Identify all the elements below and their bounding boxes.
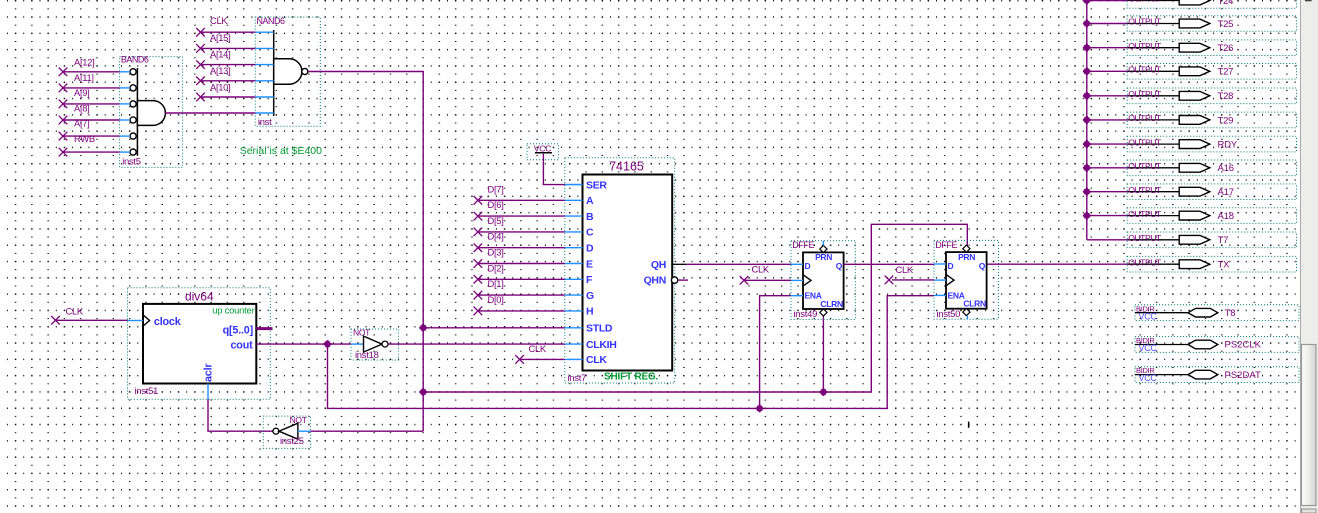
input wire CLK (NAND6) (196, 15, 255, 36)
svg-text:Serial is at $E400: Serial is at $E400 (240, 145, 322, 157)
input wire A[11] (59, 72, 130, 92)
input wire D[3] (474, 247, 565, 268)
svg-text:VCC: VCC (534, 143, 551, 153)
wire STLD net (423, 327, 565, 329)
svg-text:D[0]: D[0] (488, 294, 504, 305)
and gate BAND6 inst5 (120, 54, 183, 167)
svg-text:inst: inst (258, 117, 272, 128)
input wire CLK (inst50) (885, 264, 934, 284)
input wire D[5] (474, 215, 565, 236)
svg-text:SHIFT REG.: SHIFT REG. (604, 372, 659, 383)
svg-text:inst25: inst25 (280, 436, 304, 447)
nand gate NAND6 inst (255, 16, 320, 128)
svg-text:OUTPUT: OUTPUT (1128, 185, 1162, 195)
svg-text:E: E (586, 258, 593, 270)
junction on ENA net (756, 405, 764, 413)
svg-text:PRN: PRN (815, 252, 832, 262)
svg-text:A[8]: A[8] (74, 102, 89, 113)
junction at T28 (1083, 92, 1091, 100)
svg-text:CLK: CLK (752, 264, 770, 275)
svg-text:OUTPUT: OUTPUT (1128, 65, 1162, 75)
svg-text:up counter: up counter (212, 304, 254, 315)
wire PRN net (423, 224, 967, 392)
svg-text:OUTPUT: OUTPUT (1128, 161, 1162, 171)
svg-text:A[13]: A[13] (210, 65, 230, 76)
bidir pin T8 (1135, 304, 1299, 321)
svg-text:A[11]: A[11] (74, 72, 94, 83)
svg-text:OUTPUT: OUTPUT (1128, 233, 1162, 243)
svg-text:A17: A17 (1218, 187, 1234, 198)
svg-text:inst50: inst50 (937, 309, 961, 320)
junction at A17 (1083, 188, 1091, 196)
scrollbar (1301, 0, 1318, 513)
bus vertical to output pins (1086, 0, 1088, 240)
svg-text:DFFE: DFFE (935, 240, 957, 250)
output pin A18 (1127, 208, 1296, 224)
svg-text:74165: 74165 (609, 160, 644, 174)
wire CLRN branch from inst49 (822, 315, 824, 392)
wire bus to T28 (1087, 95, 1127, 97)
stray cursor mark (968, 422, 970, 428)
output pin RDY (1127, 136, 1296, 152)
svg-text:A[10]: A[10] (210, 82, 230, 93)
input wire A[10] (NAND6) (196, 82, 255, 102)
wire bus to T26 (1087, 47, 1127, 49)
output pin T26 (1127, 40, 1296, 56)
svg-text:RDY: RDY (1218, 140, 1238, 151)
svg-text:T7: T7 (1218, 235, 1229, 246)
svg-text:aclr: aclr (203, 363, 215, 382)
svg-text:inst51: inst51 (135, 386, 159, 397)
blue stub above PRN (inst49) (822, 241, 824, 246)
wire BAND6 output to NAND6 input (165, 112, 255, 114)
svg-text:D[1]: D[1] (488, 278, 504, 289)
wire inst25 input from NAND6 net (311, 430, 424, 432)
svg-text:Q: Q (836, 261, 843, 271)
svg-text:T29: T29 (1218, 115, 1234, 126)
input wire A[13] (NAND6) (196, 65, 255, 85)
input wire CLK (74165) (515, 343, 565, 364)
junction at RDY (1083, 140, 1091, 148)
svg-text:inst18: inst18 (355, 350, 379, 361)
svg-text:D: D (805, 261, 811, 271)
svg-text:CLK: CLK (529, 343, 547, 354)
svg-text:PRN: PRN (958, 252, 975, 262)
flip-flop DFFE inst50 (934, 240, 998, 320)
svg-text:STLD: STLD (586, 323, 613, 335)
svg-text:OUTPUT: OUTPUT (1128, 113, 1162, 123)
svg-text:SER: SER (586, 179, 607, 191)
svg-text:T25: T25 (1218, 19, 1234, 30)
wire bus to A18 (1087, 215, 1127, 217)
svg-text:clock: clock (154, 316, 182, 328)
junction at T25 (1083, 20, 1091, 28)
junction at T26 (1083, 44, 1091, 52)
output pin T29 (1127, 112, 1296, 128)
input wire D[0] (474, 294, 565, 315)
svg-text:CLK: CLK (210, 15, 228, 26)
svg-text:A: A (586, 195, 594, 207)
bidir pin PS2CLK (1135, 336, 1299, 353)
svg-text:ENA: ENA (805, 291, 822, 301)
svg-text:TX: TX (1218, 260, 1231, 271)
svg-text:OUTPUT: OUTPUT (1128, 89, 1162, 99)
svg-text:A[15]: A[15] (210, 32, 230, 43)
input wire D[6] (474, 199, 565, 220)
svg-text:cout: cout (231, 340, 254, 352)
svg-text:CLK: CLK (586, 354, 607, 366)
svg-text:VCC: VCC (1139, 343, 1158, 353)
svg-text:OUTPUT: OUTPUT (1128, 41, 1162, 51)
counter div64 inst51 (128, 288, 273, 400)
svg-text:A[7]: A[7] (74, 118, 89, 129)
output pin T27 (1127, 64, 1296, 80)
input wire A[15] (NAND6) (196, 32, 255, 53)
input wire A[7] (59, 118, 130, 141)
svg-text:div64: div64 (185, 290, 214, 304)
input wire RWB (59, 133, 130, 157)
svg-text:OUTPUT: OUTPUT (1128, 0, 1162, 4)
svg-text:T24: T24 (1218, 0, 1234, 7)
output pin T28 (1127, 88, 1296, 104)
output pin T24 (1127, 0, 1296, 8)
svg-text:D[6]: D[6] (488, 199, 504, 210)
wire bus to A17 (1087, 191, 1127, 193)
input wire A[12] (59, 57, 130, 76)
junction at T24 (1083, 0, 1091, 4)
wire inst18 output to CLKIH (388, 343, 565, 345)
svg-text:A18: A18 (1218, 211, 1234, 222)
svg-text:D[5]: D[5] (488, 215, 504, 226)
svg-text:D: D (586, 243, 594, 255)
svg-text:q[5..0]: q[5..0] (223, 325, 253, 337)
svg-text:Q: Q (979, 261, 986, 271)
wire bus to RDY (1087, 143, 1127, 145)
shift register 74165 inst7 (565, 158, 688, 384)
input wire D[7] (474, 183, 565, 204)
wire bus to A16 (1087, 167, 1127, 169)
junction on STLD net (419, 324, 427, 332)
output pin A17 (1127, 184, 1296, 200)
output pin A16 (1127, 160, 1296, 176)
svg-text:D[4]: D[4] (488, 231, 504, 242)
svg-text:T28: T28 (1218, 91, 1234, 102)
svg-text:QHN: QHN (644, 275, 666, 287)
svg-text:A[14]: A[14] (210, 48, 230, 59)
output pin TX (1127, 256, 1296, 272)
svg-text:A16: A16 (1218, 163, 1234, 174)
not gate inst25 (263, 415, 310, 448)
junction on CLRN net (419, 388, 427, 396)
svg-text:A[9]: A[9] (74, 87, 89, 98)
junction at T29 (1083, 116, 1091, 124)
svg-text:OUTPUT: OUTPUT (1128, 17, 1162, 27)
svg-text:T27: T27 (1218, 67, 1234, 78)
svg-text:G: G (586, 290, 594, 302)
wire ENA branch to inst49 (760, 296, 791, 409)
svg-text:C: C (586, 227, 594, 239)
wire bus corner to T7 (1087, 239, 1127, 241)
wire aclr net (208, 399, 273, 431)
svg-text:QH: QH (651, 259, 666, 271)
svg-text:NOT: NOT (353, 328, 370, 338)
svg-text:CLKIH: CLKIH (586, 339, 617, 351)
svg-text:DFFE: DFFE (792, 240, 814, 250)
svg-text:BAND6: BAND6 (121, 54, 149, 64)
svg-text:PS2CLK: PS2CLK (1225, 340, 1262, 351)
wire cout to inst18 (256, 343, 351, 345)
wire bus to T24 (1087, 0, 1127, 2)
svg-text:D[2]: D[2] (488, 262, 504, 273)
junction at A16 (1083, 164, 1091, 172)
svg-text:F: F (586, 274, 593, 286)
input wire A[8] (59, 102, 130, 124)
bidir pin PS2DAT (1135, 366, 1299, 383)
svg-text:OUTPUT: OUTPUT (1128, 209, 1162, 219)
svg-text:VCC: VCC (1139, 373, 1158, 383)
svg-text:CLK: CLK (66, 305, 84, 316)
junction on PRN net (820, 388, 828, 396)
power VCC (527, 143, 559, 160)
svg-text:inst49: inst49 (794, 309, 818, 320)
not gate inst18 (351, 328, 398, 361)
svg-text:CLRN: CLRN (963, 299, 986, 309)
output pin T25 (1127, 16, 1296, 32)
wire Q (inst50) to TX (987, 263, 1127, 265)
svg-text:NAND6: NAND6 (257, 16, 286, 26)
wire Q to D (inst49 to inst50) (843, 263, 934, 265)
svg-text:D[3]: D[3] (488, 247, 504, 258)
svg-text:CLK: CLK (896, 264, 914, 275)
blue stub below CLRN (inst50) (966, 316, 968, 319)
wire bus to T29 (1087, 119, 1127, 121)
junction at T27 (1083, 67, 1091, 75)
output pin T7 (1127, 232, 1296, 248)
input wire D[2] (474, 262, 565, 283)
input wire D[4] (474, 231, 565, 252)
svg-text:CLRN: CLRN (820, 299, 843, 309)
svg-text:inst7: inst7 (568, 373, 587, 384)
svg-text:H: H (586, 306, 593, 318)
junction at A18 (1083, 212, 1091, 220)
svg-text:D: D (948, 261, 954, 271)
svg-text:OUTPUT: OUTPUT (1128, 137, 1162, 147)
svg-text:PS2DAT: PS2DAT (1225, 370, 1261, 381)
wire bus to T27 (1087, 70, 1127, 72)
wire VCC to SER (543, 154, 566, 185)
wire bus to T25 (1087, 23, 1127, 25)
input wire A[14] (NAND6) (196, 48, 255, 69)
svg-text:OUTPUT: OUTPUT (1128, 257, 1162, 267)
svg-text:RWB: RWB (74, 133, 95, 144)
input wire CLK (inst49) (740, 264, 791, 285)
flip-flop DFFE inst49 (791, 240, 855, 320)
svg-text:T26: T26 (1218, 43, 1234, 54)
wire NAND6 output vertical to inst25 (308, 72, 423, 432)
svg-text:B: B (586, 211, 594, 223)
junction on cout net (324, 340, 332, 348)
svg-text:inst5: inst5 (122, 157, 141, 168)
svg-text:D[7]: D[7] (488, 183, 504, 194)
svg-text:A[12]: A[12] (74, 57, 94, 68)
input wire D[1] (474, 278, 565, 299)
svg-text:VCC: VCC (1139, 311, 1158, 321)
svg-text:T8: T8 (1225, 308, 1236, 319)
input wire CLK (div64) (51, 305, 127, 324)
svg-text:ENA: ENA (948, 290, 965, 300)
input wire A[9] (59, 87, 130, 108)
wire QH to D (inst49) (686, 263, 791, 265)
wire ENA net (328, 296, 935, 409)
